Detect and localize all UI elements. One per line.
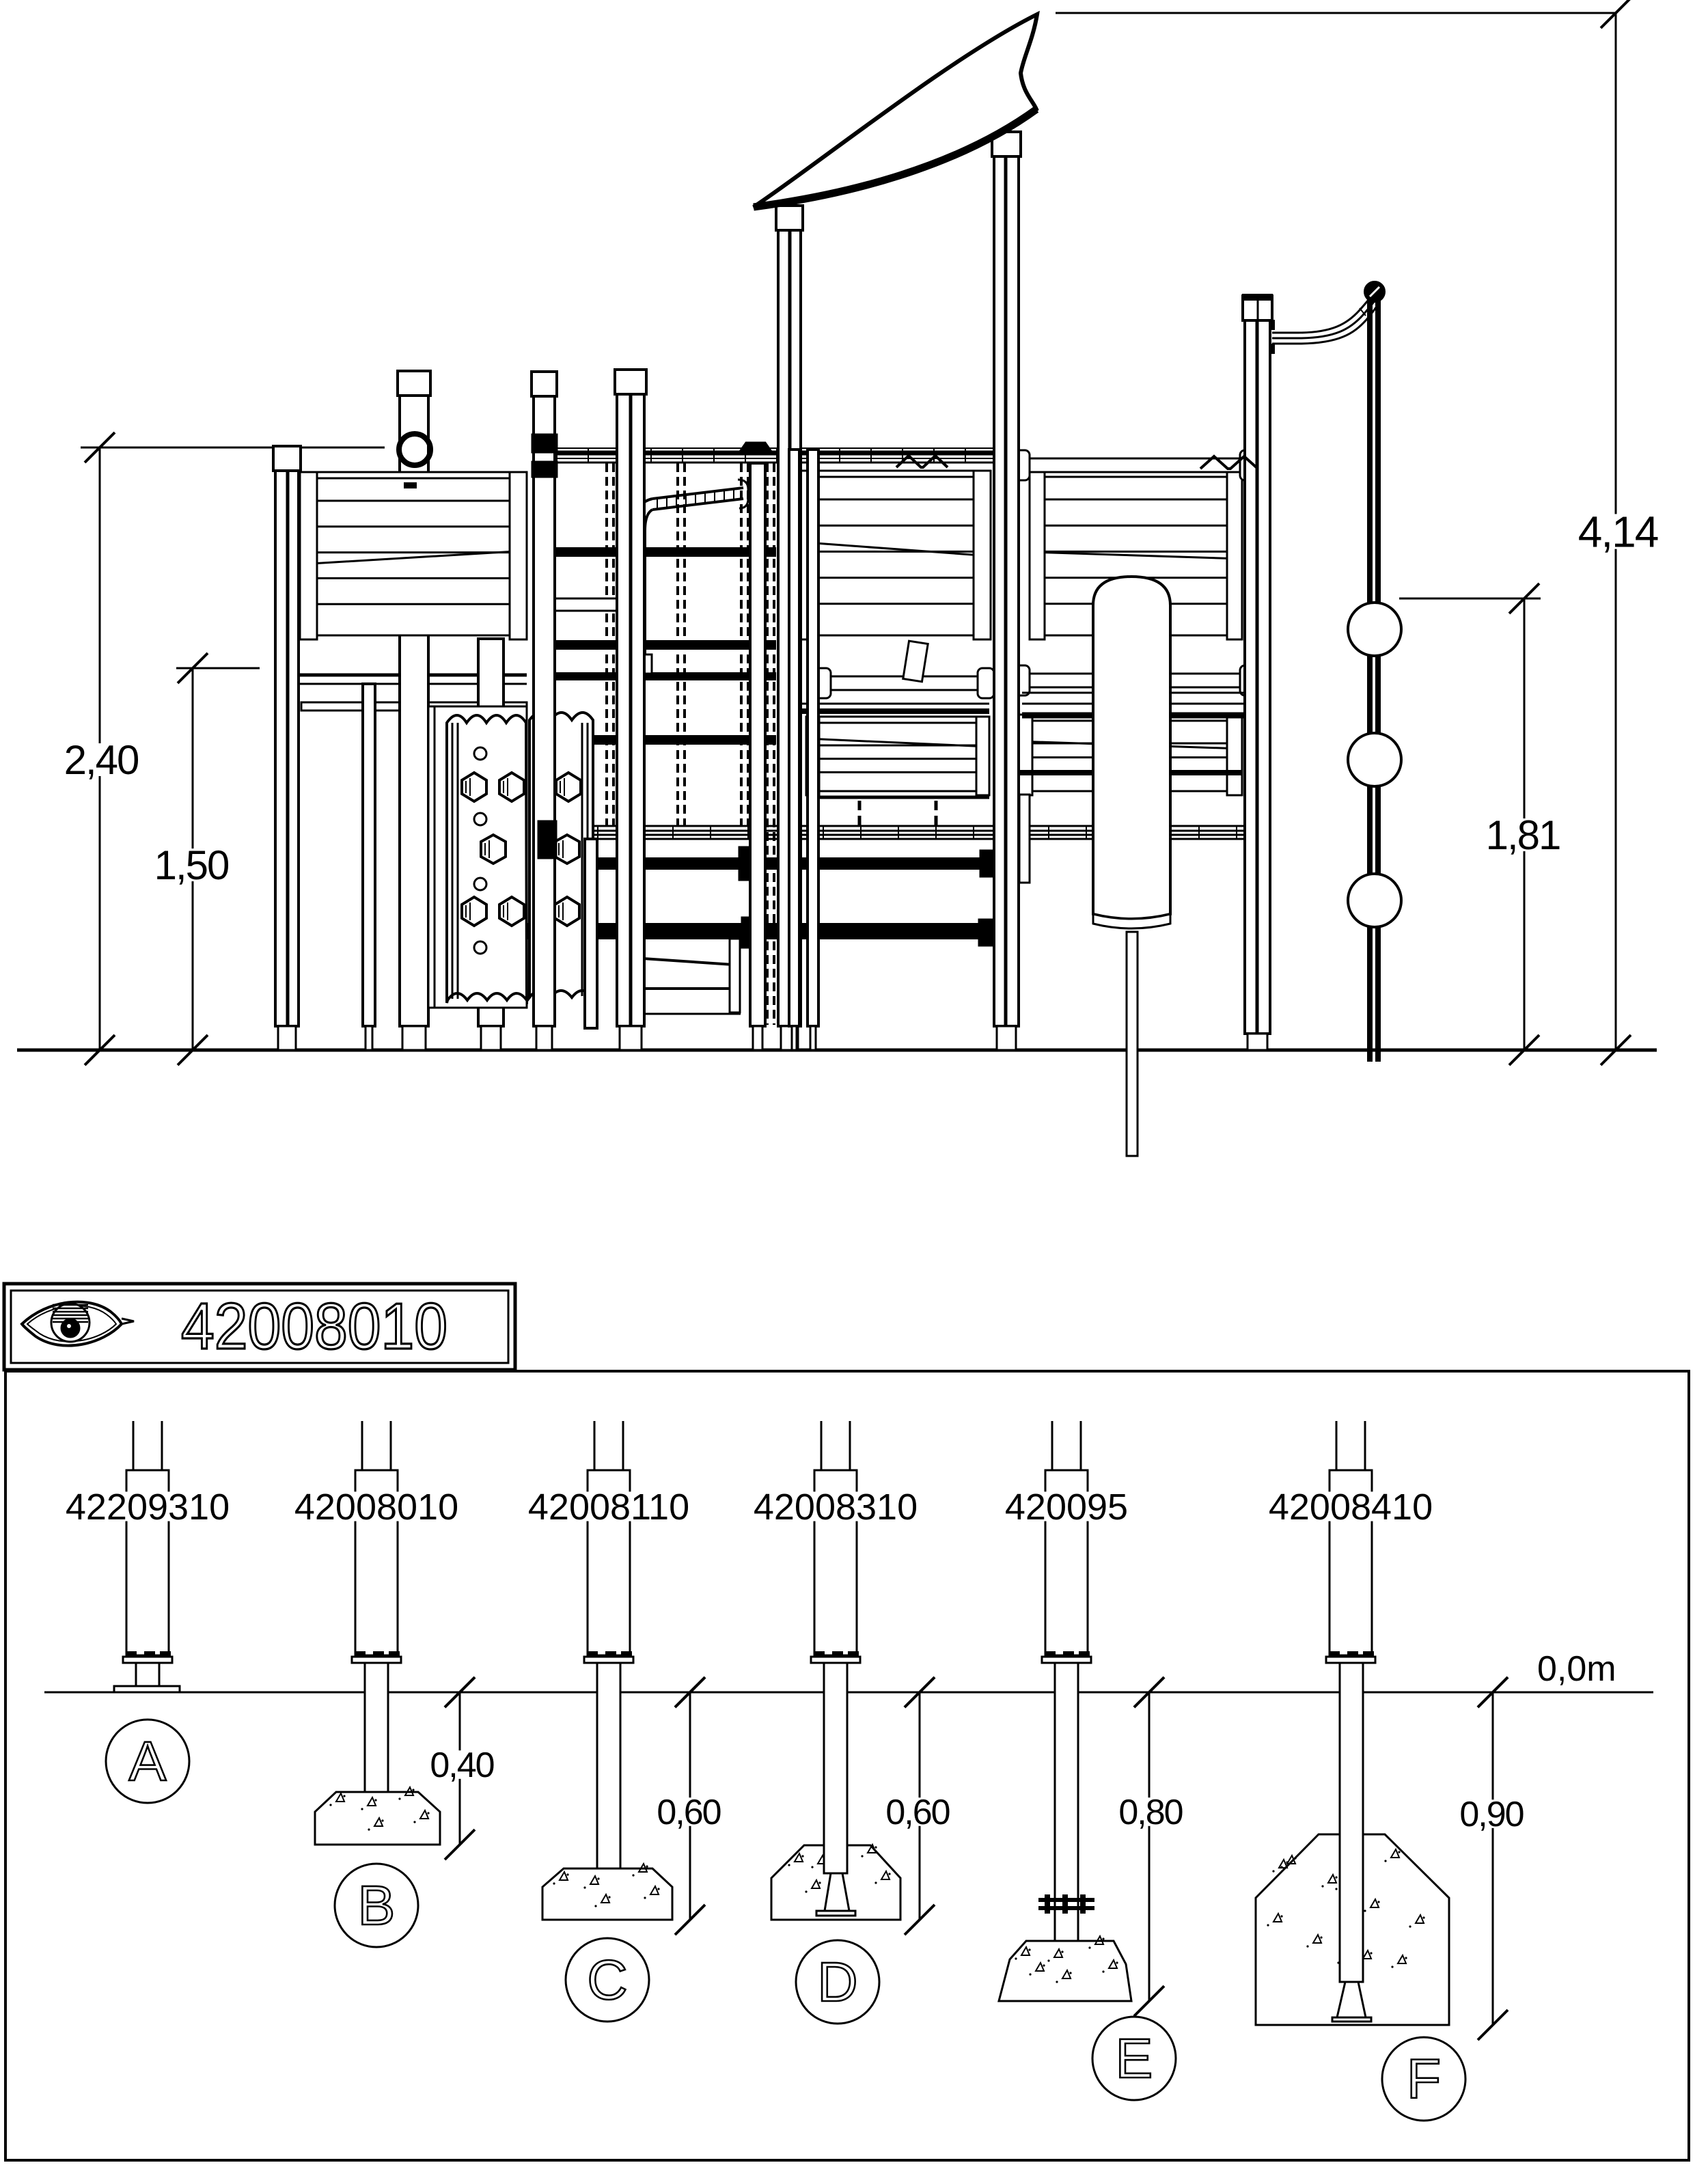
post body 42008110	[594, 1421, 596, 1470]
detail D circle	[796, 1940, 879, 2024]
detail E tube	[1055, 1663, 1078, 1941]
dimension line 1,81	[1524, 598, 1526, 1050]
left tower beam lower	[301, 702, 527, 711]
svg-text:1,81: 1,81	[1486, 812, 1560, 858]
deck boards	[543, 825, 1250, 827]
net chain 1	[605, 463, 608, 826]
detail D dim	[919, 1692, 921, 1920]
bottom section border	[5, 1371, 1689, 2160]
bag rod	[1127, 932, 1138, 1156]
svg-text:0,0m: 0,0m	[1537, 1649, 1616, 1689]
net rung 1	[543, 547, 776, 557]
small dash on panel 1	[404, 483, 416, 488]
svg-text:C: C	[587, 1949, 627, 2011]
dimension line 2,40	[99, 447, 101, 1050]
dimension extension 1,81	[1399, 598, 1541, 600]
svg-text:1,50: 1,50	[154, 842, 229, 888]
svg-text:F: F	[1407, 2048, 1441, 2110]
title block inner	[11, 1291, 508, 1363]
net chain 4	[766, 463, 769, 1025]
dimension label 2,40	[55, 743, 147, 776]
svg-text:2,40: 2,40	[64, 737, 139, 783]
post under panel1 center	[478, 639, 504, 1026]
net chain 3	[740, 463, 743, 826]
bench panel bay2	[806, 717, 989, 791]
part number 42008110	[526, 1491, 691, 1521]
deck bay2 upper	[823, 676, 985, 690]
climbing rope	[1367, 299, 1373, 1062]
detail A circle	[106, 1720, 189, 1803]
svg-text:0,60: 0,60	[657, 1793, 720, 1832]
trapeze bar top bay3	[1022, 458, 1248, 472]
elevation ground line	[17, 1049, 1657, 1052]
svg-text:42008410: 42008410	[1269, 1487, 1433, 1528]
dimension extension 1,50	[176, 667, 260, 670]
svg-text:0,60: 0,60	[885, 1793, 949, 1832]
dimension line 4,14	[1615, 13, 1617, 1050]
rope ball 3	[1348, 874, 1401, 927]
dimension label 4,14	[1569, 514, 1666, 549]
svg-text:42008010: 42008010	[181, 1290, 447, 1363]
svg-text:B: B	[358, 1875, 396, 1937]
rope ball 2	[1348, 733, 1401, 786]
dimension label 1,50	[146, 849, 237, 881]
detail C tube	[597, 1663, 620, 1871]
clamp on bar right	[979, 920, 993, 946]
svg-text:0,40: 0,40	[430, 1746, 493, 1785]
detail D concrete	[771, 1845, 900, 1920]
net rung 2b	[543, 672, 776, 680]
seat board	[553, 598, 620, 611]
deck bay3	[1022, 692, 1248, 694]
wave hooks on trapeze bar	[1200, 456, 1258, 469]
svg-text:42008010: 42008010	[294, 1487, 458, 1528]
detail B dim	[459, 1692, 461, 1845]
post 2 (clamped)	[532, 372, 557, 396]
post roof right	[992, 132, 1021, 156]
deck black band	[555, 857, 993, 870]
post right tower	[1243, 296, 1272, 320]
detail A plate	[114, 1686, 180, 1692]
thick bar level 1363	[445, 923, 993, 939]
detail E concrete	[999, 1941, 1131, 2001]
detail A tube	[136, 1663, 159, 1686]
detail F concrete	[1256, 1834, 1449, 2025]
post body 42008310	[821, 1421, 823, 1470]
post P0 capped	[398, 371, 430, 396]
dimension label 1,81	[1477, 818, 1569, 851]
panel 2 balustrade	[797, 471, 991, 635]
bench band bay3	[1017, 770, 1242, 775]
post net	[615, 370, 646, 394]
clamp deck on post2	[538, 821, 556, 858]
svg-text:420095: 420095	[1005, 1487, 1128, 1528]
part number 42209310	[65, 1491, 230, 1521]
svg-text:4,14: 4,14	[1578, 507, 1658, 556]
detail B concrete	[315, 1792, 440, 1845]
panel 1 balustrade	[300, 472, 527, 635]
detail D tube	[824, 1663, 847, 1873]
svg-text:E: E	[1116, 2028, 1153, 2090]
bottom ground line	[44, 1692, 1653, 1694]
detail E clamp	[1038, 1898, 1094, 1902]
climbing holds	[474, 747, 486, 760]
left tower beam upper	[275, 674, 527, 677]
rope ball 1	[1348, 603, 1401, 656]
net rung 2	[543, 640, 776, 650]
post wall support	[363, 684, 375, 1026]
dimension top extension line	[1056, 12, 1616, 14]
black cap on beam	[741, 443, 770, 450]
post body 42008010	[361, 1421, 363, 1470]
post net right	[750, 463, 765, 1026]
net chain 2	[676, 463, 679, 826]
panel 3 balustrade	[1030, 471, 1242, 635]
detail C concrete	[542, 1868, 672, 1920]
svg-text:0,80: 0,80	[1118, 1793, 1182, 1832]
clamp top b	[532, 462, 557, 477]
post bay2 b	[808, 450, 818, 1026]
ground ticks	[445, 1677, 475, 1707]
curved hanger	[1272, 294, 1373, 333]
deck clamp right	[980, 851, 993, 877]
svg-text:42008310: 42008310	[754, 1487, 918, 1528]
clamp on bar left	[742, 918, 754, 948]
post body 42209310	[133, 1421, 135, 1470]
svg-text:0,90: 0,90	[1459, 1795, 1523, 1834]
trapeze bar mid bay3	[1022, 674, 1248, 687]
svg-text:A: A	[129, 1730, 167, 1793]
post roof left	[776, 206, 803, 230]
stile strip bay3	[1019, 795, 1030, 883]
detail D anchor	[825, 1873, 849, 1911]
post bay2 a	[789, 450, 799, 1026]
title block outer	[4, 1284, 515, 1370]
bench panel bay3	[1017, 715, 1242, 791]
detail C dim	[689, 1692, 691, 1920]
bench rail bay2	[806, 796, 989, 799]
top beam	[543, 447, 994, 449]
net entry tube	[652, 488, 743, 499]
right tower cap top band	[1243, 294, 1272, 300]
detail E circle	[1092, 2017, 1176, 2100]
climbing wall	[428, 706, 527, 1008]
small ladder	[643, 959, 733, 965]
part number 420095	[1004, 1491, 1128, 1521]
punching bag	[1093, 577, 1170, 919]
net rung 3	[543, 735, 776, 745]
detail F tube	[1340, 1663, 1363, 1982]
detail B circle	[335, 1864, 418, 1947]
hanger knob	[1365, 282, 1384, 301]
part number 42008310	[753, 1491, 918, 1521]
hanging board bay2	[903, 641, 928, 682]
svg-text:42008110: 42008110	[528, 1487, 689, 1528]
part number 42008410	[1268, 1491, 1433, 1521]
svg-text:D: D	[817, 1951, 857, 2013]
post left tower	[273, 446, 301, 471]
detail F anchor	[1337, 1982, 1366, 2017]
detail B tube	[365, 1663, 388, 1793]
detail C circle	[566, 1938, 649, 2022]
ring handle	[399, 434, 430, 465]
dimension line 1,50	[192, 668, 194, 1050]
title eye logo	[22, 1302, 122, 1346]
wave hooks on beam	[896, 456, 948, 467]
dimension extension 2,40	[81, 447, 385, 449]
post body 42008410	[1336, 1421, 1338, 1470]
svg-text:42209310: 42209310	[66, 1487, 230, 1528]
part number 42008010	[294, 1491, 459, 1521]
chain below deck a	[858, 801, 862, 826]
detail F dim	[1492, 1692, 1494, 2025]
post under deck	[585, 839, 597, 1028]
deck clamp left	[739, 847, 754, 880]
post body 420095	[1051, 1421, 1053, 1470]
chain below deck b	[935, 801, 938, 826]
detail F circle	[1382, 2037, 1465, 2121]
roof sail	[754, 14, 1037, 207]
clamp top a	[532, 435, 557, 452]
detail E dim	[1148, 1692, 1151, 2001]
